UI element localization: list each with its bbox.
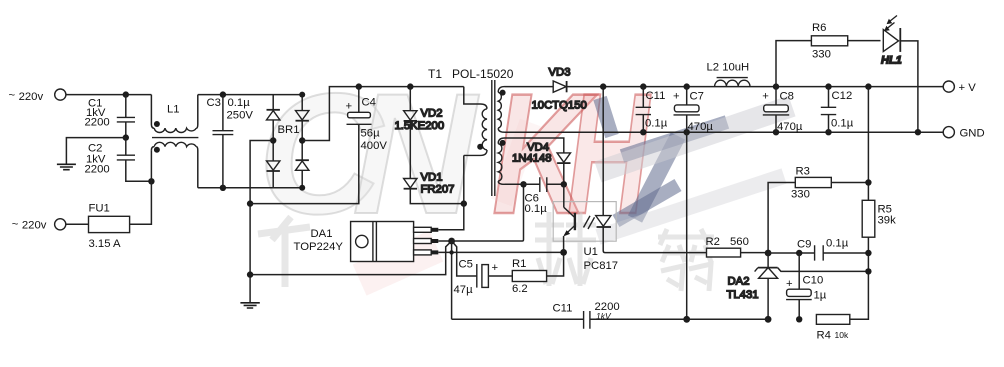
wire bridge mid-left to primary ground	[250, 141, 273, 303]
T1 bias winding	[498, 138, 505, 184]
ground primary	[240, 303, 259, 308]
BR1 diode top-right	[296, 95, 309, 141]
svg-text:C8: C8	[780, 91, 794, 103]
wire terminal to fuse	[66, 223, 89, 225]
watermark gray band 2	[598, 176, 784, 237]
node TL431 anode on bottom rail	[765, 316, 772, 323]
LED HL1	[881, 16, 918, 133]
terminal GND	[943, 127, 954, 138]
svg-text:C3: C3	[207, 97, 221, 109]
node VD2 top	[407, 83, 413, 89]
wire to left ground	[66, 138, 125, 164]
svg-text:+: +	[762, 91, 769, 103]
watermark hanzi zi	[658, 229, 714, 291]
diode VD1 FR207	[404, 172, 455, 196]
diode VD3 10CTQ150	[532, 67, 587, 112]
bridge rectifier BR1	[267, 95, 309, 188]
node drain junction	[461, 200, 467, 206]
svg-text:VD2: VD2	[421, 108, 443, 120]
wire bottom rail left segment	[452, 318, 584, 320]
svg-text:47µ: 47µ	[454, 284, 474, 296]
svg-text:C11: C11	[646, 90, 666, 102]
svg-text:T1 POL-15020: T1 POL-15020	[428, 67, 514, 81]
node C1-C2 junction	[123, 134, 129, 140]
wire control pin to control node	[438, 240, 451, 242]
wire feedback vertical from +V	[867, 87, 869, 201]
svg-text:R4: R4	[817, 330, 831, 342]
wire bias winding top to VD4	[505, 138, 564, 153]
node C3 top	[220, 91, 226, 97]
node bias-C6 junction	[520, 181, 526, 187]
svg-text:0.1µ: 0.1µ	[826, 238, 849, 250]
svg-text:~: ~	[12, 219, 19, 231]
svg-text:2200: 2200	[85, 117, 110, 129]
wire primary ground to C4 bottom	[250, 125, 359, 204]
diode VD4 1N4148	[512, 142, 571, 185]
svg-text:1.5KE200: 1.5KE200	[395, 120, 445, 132]
svg-text:39k: 39k	[878, 215, 897, 227]
svg-text:0.1µ: 0.1µ	[228, 97, 251, 109]
svg-text:0.1µ: 0.1µ	[831, 118, 854, 130]
svg-text:R6: R6	[812, 22, 826, 34]
node C7 top	[684, 83, 690, 89]
resistor R3 330	[768, 166, 868, 254]
resistor R1 6.2	[512, 258, 547, 295]
svg-text:2200: 2200	[85, 164, 110, 176]
svg-text:6.2: 6.2	[512, 283, 528, 295]
svg-text:C5: C5	[459, 259, 473, 271]
svg-text:3.15 A: 3.15 A	[89, 238, 122, 250]
node ground-control tee	[247, 271, 253, 277]
node ground-C4 tee	[247, 200, 253, 206]
svg-text:C11: C11	[553, 303, 573, 315]
terminal AC input top ~220v	[55, 89, 66, 100]
node C2-L1-fuse junction	[148, 178, 154, 184]
T1 secondary top winding	[498, 87, 505, 133]
node bridge mid-right	[299, 137, 305, 143]
svg-text:PC817: PC817	[584, 260, 619, 272]
resistor R5 39k	[862, 200, 896, 237]
wire control node to C6 branch	[452, 184, 524, 241]
svg-text:470µ: 470µ	[777, 121, 803, 133]
svg-text:10CTQ150: 10CTQ150	[532, 100, 587, 112]
wire C7 gnd to TL431 gnd	[686, 132, 688, 319]
wire Y-cap branch control to bottom	[451, 241, 453, 319]
pin source	[414, 250, 439, 255]
BR1 diode top-left	[267, 95, 280, 141]
inductor L2 10uH	[707, 62, 751, 87]
wire primary bottom to drain node	[463, 155, 465, 203]
capacitor C1	[85, 95, 136, 138]
wire VD1 to drain node	[410, 189, 464, 204]
svg-text:FU1: FU1	[89, 203, 110, 215]
capacitor C5 47u	[454, 259, 513, 297]
svg-text:C9: C9	[797, 239, 811, 251]
svg-text:1µ: 1µ	[814, 290, 827, 302]
svg-text:C4: C4	[362, 97, 376, 109]
svg-text:0.1µ: 0.1µ	[525, 203, 548, 215]
svg-text:470µ: 470µ	[688, 121, 714, 133]
IC DA1 TOP224Y	[294, 222, 439, 262]
svg-text:250V: 250V	[227, 110, 254, 122]
node C12 top	[825, 83, 831, 89]
BR1 diode bottom-left	[267, 141, 280, 188]
diode VD2 1.5KE200	[395, 87, 445, 132]
node source-emitter	[560, 249, 567, 256]
svg-text:C7: C7	[690, 91, 704, 103]
wire bridge mid-right to DC+ rail	[302, 87, 464, 141]
node C8 top / R6 tap	[773, 83, 779, 89]
node bridge mid-left	[270, 137, 276, 143]
wire AC top rail L1 to bridge	[198, 94, 302, 96]
svg-text:+ V: + V	[959, 82, 977, 94]
svg-text:+: +	[346, 101, 353, 113]
svg-text:BR1: BR1	[278, 124, 300, 136]
svg-text:+: +	[786, 278, 793, 290]
node C1 top junction	[123, 91, 129, 97]
wire VD2 to VD1	[409, 121, 411, 179]
wire secondary GND rail	[505, 131, 944, 133]
svg-text:10k: 10k	[835, 330, 849, 340]
capacitor C8 470u	[762, 87, 803, 133]
node C10 top	[796, 250, 802, 256]
wire AC bottom rail L1 to bridge	[198, 187, 302, 189]
watermark gray band 1	[598, 106, 792, 172]
optocoupler U1 PC817	[553, 87, 706, 272]
capacitor C2	[85, 138, 152, 182]
watermark pink swoosh 2	[491, 119, 541, 206]
resistor R2 560	[706, 236, 769, 257]
watermark letter Z	[600, 98, 727, 221]
capacitor C3 0.1u 250V	[207, 95, 254, 188]
watermark hanzi qian	[258, 217, 310, 287]
svg-text:C12: C12	[832, 90, 853, 102]
svg-text:56µ: 56µ	[361, 128, 381, 140]
BR1 diode bottom-right	[296, 141, 309, 188]
svg-text:VD1: VD1	[421, 172, 443, 184]
watermark hanzi he	[535, 212, 596, 286]
svg-text:GND: GND	[960, 128, 985, 140]
wire control node diagonal to primary ground run	[250, 241, 452, 275]
svg-text:~: ~	[9, 90, 16, 102]
svg-text:TL431: TL431	[727, 289, 759, 301]
node C12 bottom	[825, 129, 831, 135]
node feedback tap on +V rail	[865, 83, 871, 89]
svg-text:0.1µ: 0.1µ	[645, 118, 668, 130]
node C6-VD4-collector	[561, 181, 567, 187]
wire bias winding bottom	[505, 183, 524, 185]
svg-text:L1: L1	[167, 104, 180, 116]
wire fuse to L1 bottom	[130, 181, 152, 224]
svg-text:220v: 220v	[19, 91, 44, 103]
wire +V raw rail VD3 to +V terminal	[567, 86, 944, 88]
capacitor C12 0.1u	[821, 87, 854, 133]
node bridge top-right corner	[299, 92, 305, 98]
transformer T1 POL-15020	[428, 67, 514, 204]
terminal AC input bottom ~220v	[55, 219, 66, 230]
node R2-TL431-C9	[765, 250, 772, 257]
inductor L1 common-mode choke	[151, 95, 198, 188]
capacitor C11 0.1u	[636, 87, 668, 133]
node C11 top	[640, 83, 646, 89]
svg-text:R3: R3	[796, 166, 810, 178]
shunt regulator DA2 TL431	[727, 253, 869, 319]
wire control node diagonal to C5	[452, 241, 477, 276]
capacitor C4 56u 400V	[346, 87, 388, 152]
wire R5 bottom to R4 corner	[850, 237, 869, 319]
node R3 right on feedback line	[865, 179, 871, 185]
node C7 bottom	[684, 129, 690, 135]
wire R1 to source-emitter node	[547, 252, 564, 276]
resistor R4 10k	[816, 315, 849, 342]
pin drain	[414, 227, 439, 232]
svg-text:560: 560	[730, 236, 749, 248]
node ref junction	[865, 268, 871, 274]
node C11 bottom	[640, 129, 646, 135]
svg-text:DA2: DA2	[728, 276, 750, 288]
svg-text:+: +	[673, 91, 680, 103]
fuse FU1 3.15A	[89, 203, 130, 251]
U1 phototransistor	[563, 184, 575, 252]
T1 primary winding	[464, 87, 487, 156]
node control	[448, 238, 455, 245]
svg-text:1N4148: 1N4148	[512, 153, 552, 165]
node LED anode tap	[600, 83, 606, 89]
svg-text:R2: R2	[706, 236, 720, 248]
wire source pin to opto emitter	[438, 251, 563, 253]
svg-text:220v: 220v	[22, 220, 47, 232]
capacitor C9 0.1u	[768, 238, 868, 261]
svg-text:HL1: HL1	[881, 55, 902, 67]
node C4 top	[356, 83, 362, 89]
svg-text:C10: C10	[803, 275, 824, 287]
svg-text:330: 330	[812, 49, 831, 61]
svg-text:1kV: 1kV	[596, 311, 612, 321]
wire secondary top to VD3	[505, 86, 554, 88]
svg-text:FR207: FR207	[421, 184, 455, 196]
node C10 bottom	[796, 316, 802, 322]
wire drain node to drain pin	[438, 204, 464, 230]
svg-text:VD3: VD3	[549, 67, 571, 79]
capacitor C6 0.1u	[524, 177, 564, 215]
node bridge bottom-right corner	[299, 185, 305, 191]
svg-text:U1: U1	[584, 246, 598, 258]
svg-text:400V: 400V	[361, 140, 388, 152]
terminal +V	[943, 81, 954, 92]
svg-text:330: 330	[791, 189, 810, 201]
node C3 bottom	[220, 185, 226, 191]
svg-text:DA1: DA1	[311, 228, 333, 240]
capacitor C10 1u	[786, 253, 827, 319]
resistor R6 330	[776, 22, 881, 87]
wire AC line1 from terminal to L1	[66, 94, 152, 96]
svg-text:R1: R1	[512, 258, 526, 270]
node HL1 cathode on GND rail	[915, 129, 921, 135]
U1 light arrows	[584, 216, 595, 229]
node GND-bottom-rail junction	[683, 316, 690, 323]
svg-text:+: +	[492, 262, 499, 274]
U1 LED	[596, 87, 707, 253]
svg-text:TOP224Y: TOP224Y	[294, 241, 344, 253]
svg-text:L2 10uH: L2 10uH	[707, 62, 750, 74]
capacitor C11 2200 1kV	[553, 301, 769, 329]
node source-Ycap crossing	[449, 250, 453, 254]
wire L1 bottom left lead	[150, 150, 152, 181]
ground left	[57, 164, 76, 169]
watermark pink swoosh 1	[353, 230, 444, 295]
capacitor C7 470u	[673, 87, 713, 133]
node C8 bottom	[773, 129, 779, 135]
pin control	[414, 239, 439, 244]
T1 core	[492, 80, 495, 196]
node C9 right	[865, 250, 871, 256]
